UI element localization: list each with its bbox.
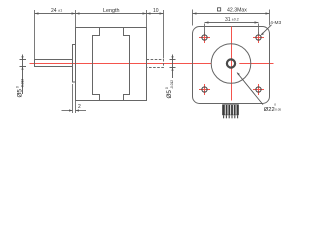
svg-text:42.3Max: 42.3Max bbox=[227, 7, 247, 13]
rear shaft (hidden, dashed) bbox=[147, 60, 164, 68]
dimension Ø5 front shaft bbox=[20, 55, 27, 95]
dimension Length bbox=[76, 10, 147, 28]
svg-text:31: 31 bbox=[225, 17, 231, 23]
svg-text:-0.012: -0.012 bbox=[170, 80, 174, 89]
dimension 2 (boss thickness) bbox=[62, 84, 87, 113]
svg-text:10: 10 bbox=[153, 8, 159, 14]
svg-text:4-M3: 4-M3 bbox=[270, 20, 281, 26]
svg-text:±0.2: ±0.2 bbox=[232, 18, 239, 22]
motor body (side view) bbox=[76, 28, 147, 101]
svg-text:Ø5: Ø5 bbox=[166, 90, 173, 99]
svg-text:±1: ±1 bbox=[58, 8, 62, 12]
mounting hole bottom-right bbox=[253, 84, 264, 95]
dimension 31±0.2 bbox=[205, 21, 259, 34]
dimension 10 bbox=[147, 10, 164, 59]
red vertical centerline (front view) bbox=[231, 27, 233, 101]
label Ø22 0/-0.05 with leader bbox=[237, 73, 263, 105]
pilot boss (side view) bbox=[73, 45, 76, 83]
front view plate bbox=[193, 27, 270, 104]
dimension Ø5 rear shaft bbox=[170, 55, 176, 79]
mounting hole top-right bbox=[253, 32, 264, 43]
svg-text:Ø5: Ø5 bbox=[17, 89, 24, 98]
mounting hole bottom-left bbox=[199, 84, 210, 95]
svg-text:-0.05: -0.05 bbox=[274, 107, 281, 111]
connector bbox=[222, 104, 239, 118]
pilot circle Ø22 bbox=[211, 44, 251, 84]
svg-text:Length: Length bbox=[103, 8, 120, 14]
mounting hole top-left bbox=[199, 32, 210, 43]
svg-text:Ø22: Ø22 bbox=[264, 107, 275, 113]
svg-text:-0.013: -0.013 bbox=[20, 79, 24, 88]
dimension 42.3Max bbox=[193, 10, 270, 26]
svg-text:24: 24 bbox=[51, 8, 57, 14]
svg-text:0: 0 bbox=[16, 86, 20, 88]
stator cross outline (side view) bbox=[93, 28, 130, 101]
front shaft bbox=[35, 60, 73, 67]
dimension 24±1 bbox=[35, 10, 76, 60]
svg-text:0: 0 bbox=[165, 87, 169, 89]
shaft circle Ø5 bbox=[227, 59, 235, 67]
red horizontal centerline (right segment) bbox=[239, 63, 273, 65]
red horizontal centerline (left segment) bbox=[30, 63, 212, 65]
svg-text:2: 2 bbox=[78, 104, 81, 110]
